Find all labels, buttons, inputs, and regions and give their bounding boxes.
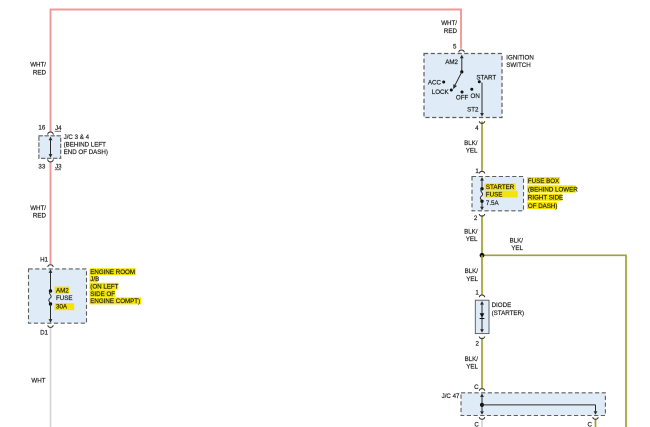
wire BLK/YEL below J/C 47 right pin C	[595, 419, 597, 427]
svg-text:(STARTER): (STARTER)	[492, 310, 524, 317]
svg-text:FUSE BOX: FUSE BOX	[528, 178, 559, 185]
svg-text:J/C 47: J/C 47	[442, 393, 460, 400]
svg-text:OF DASH): OF DASH)	[528, 203, 558, 210]
svg-text:START: START	[476, 75, 496, 82]
svg-text:RIGHT SIDE: RIGHT SIDE	[528, 195, 563, 202]
fuse box (BEHIND LOWER RIGHT SIDE OF DASH)	[472, 171, 524, 216]
svg-text:(BEHIND LOWER: (BEHIND LOWER	[528, 186, 578, 193]
wire WHT/RED from J/C 3&4 pin 16 up, across top, down to ignition switch pin 5	[51, 10, 462, 132]
svg-text:1: 1	[475, 168, 479, 175]
svg-text:WHT/: WHT/	[441, 20, 457, 27]
svg-text:ENGINE ROOM: ENGINE ROOM	[90, 269, 135, 276]
svg-text:IGNITION: IGNITION	[506, 54, 534, 61]
value label AM2 (highlighted)	[55, 287, 70, 294]
value label 30A (highlighted)	[55, 303, 75, 310]
svg-text:D1: D1	[40, 330, 48, 337]
svg-text:1: 1	[475, 290, 479, 297]
svg-text:C: C	[474, 384, 479, 391]
svg-text:BLK/: BLK/	[465, 268, 479, 275]
contact ON	[470, 88, 473, 91]
contact OFF	[461, 91, 464, 94]
value label FUSE (highlighted)	[485, 191, 518, 198]
svg-text:BLK/: BLK/	[464, 140, 478, 147]
svg-text:DIODE: DIODE	[492, 302, 512, 309]
junction block ENGINE ROOM J/B	[29, 265, 87, 328]
svg-text:AM2: AM2	[445, 59, 458, 66]
svg-text:LOCK: LOCK	[432, 89, 450, 96]
svg-text:5: 5	[453, 44, 457, 51]
fuse AM2 30A inside ENGINE ROOM J/B	[49, 269, 53, 322]
svg-text:H1: H1	[40, 256, 48, 263]
svg-text:(ON LEFT: (ON LEFT	[90, 284, 118, 291]
svg-text:STARTER: STARTER	[486, 184, 515, 191]
switch IGNITION SWITCH	[424, 50, 502, 123]
svg-text:4: 4	[475, 125, 479, 132]
svg-text:WHT: WHT	[31, 378, 45, 385]
internal wiring of J/C 47	[480, 393, 598, 414]
svg-text:C: C	[588, 421, 593, 427]
svg-text:OFF: OFF	[456, 95, 469, 102]
junction node (dot) at fuse box output	[480, 253, 485, 258]
wire BLK/YEL from junction node to diode pin 1	[481, 255, 483, 295]
switch arm: pivot and arrow to pin 5	[451, 55, 463, 90]
svg-text:ENGINE COMPT): ENGINE COMPT)	[90, 298, 140, 305]
svg-text:ACC: ACC	[428, 80, 442, 87]
svg-text:RED: RED	[33, 212, 47, 219]
svg-text:BLK/: BLK/	[464, 228, 478, 235]
contact START	[478, 80, 481, 83]
svg-text:WHT/: WHT/	[30, 62, 46, 69]
svg-text:WHT/: WHT/	[30, 205, 46, 212]
svg-text:ON: ON	[471, 93, 480, 100]
label FUSE BOX (BEHIND LOWER RIGHT SIDE OF DASH) highlighted	[527, 177, 576, 209]
svg-text:33: 33	[38, 163, 45, 170]
svg-text:YEL: YEL	[511, 245, 523, 252]
svg-text:16: 16	[38, 125, 45, 132]
value label STARTER (highlighted)	[485, 183, 516, 190]
svg-text:BLK/: BLK/	[510, 237, 524, 244]
svg-text:AM2: AM2	[56, 288, 69, 295]
svg-text:YEL: YEL	[466, 236, 478, 243]
svg-text:2: 2	[474, 215, 478, 222]
svg-text:SIDE OF: SIDE OF	[90, 291, 115, 298]
svg-text:30A: 30A	[56, 304, 68, 311]
svg-text:YEL: YEL	[466, 148, 478, 155]
wire from START contact to pin 4 (ST2)	[480, 83, 484, 117]
svg-text:SWITCH: SWITCH	[506, 62, 530, 69]
svg-text:BLK/: BLK/	[465, 356, 479, 363]
svg-text:(BEHIND LEFT: (BEHIND LEFT	[64, 141, 107, 148]
svg-text:RED: RED	[33, 69, 47, 76]
fuse STARTER 7.5A inside fuse box	[480, 177, 484, 210]
svg-text:C: C	[474, 421, 479, 427]
svg-text:J/C 3 & 4: J/C 3 & 4	[64, 134, 90, 141]
diode DIODE (STARTER)	[475, 295, 489, 339]
junction connector J/C 47	[461, 389, 605, 420]
svg-text:ST2: ST2	[467, 106, 479, 113]
wire BLK/YEL from ignition switch pin 4 to fuse box pin 1	[481, 121, 483, 170]
wire BLK/YEL branch from junction node right and down right edge	[482, 255, 626, 427]
svg-text:RED: RED	[444, 28, 458, 35]
wire WHT from ENGINE ROOM J/B pin D1 to bottom edge	[50, 327, 52, 427]
svg-text:YEL: YEL	[466, 364, 478, 371]
junction connector J/C 3 & 4	[39, 132, 61, 162]
svg-text:YEL: YEL	[466, 276, 478, 283]
wire BLK/YEL from fuse box pin 2 to junction node	[481, 215, 483, 255]
svg-text:7.5A: 7.5A	[486, 200, 500, 207]
svg-text:2: 2	[476, 340, 480, 347]
svg-text:FUSE: FUSE	[486, 192, 503, 199]
svg-text:FUSE: FUSE	[56, 295, 73, 302]
label ENGINE ROOM J/B (ON LEFT SIDE OF ENGINE COMPT) highlighted	[90, 268, 142, 304]
wire BLK/YEL from diode pin 2 to J/C 47 pin C	[481, 338, 483, 389]
wire WHT below J/C 47 left pin C	[481, 419, 483, 427]
svg-text:J/B: J/B	[90, 276, 99, 283]
contact LOCK	[450, 89, 453, 92]
svg-text:END OF DASH): END OF DASH)	[64, 149, 108, 156]
wire WHT/RED from J/C 3&4 pin 33 down to ENGINE ROOM J/B pin H1	[50, 162, 52, 264]
contact ACC	[442, 81, 445, 84]
